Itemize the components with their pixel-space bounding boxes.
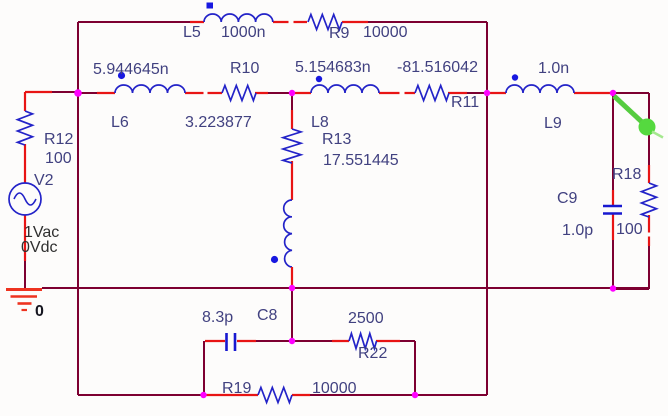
svg-text:L6: L6 (111, 114, 129, 131)
svg-text:L9: L9 (544, 115, 562, 132)
resistor R13 (283, 129, 301, 163)
inductor L9 (506, 85, 574, 93)
wire row2 left (dark) (52, 92, 291, 93)
svg-text:R18: R18 (612, 166, 641, 183)
svg-text:5.944645n: 5.944645n (93, 61, 169, 78)
svg-text:1.0n: 1.0n (538, 60, 569, 77)
ground 0 symbol (6, 290, 42, 311)
svg-text:C8: C8 (257, 307, 278, 324)
svg-text:R10: R10 (230, 60, 259, 77)
L5 marker (blue square) (207, 3, 214, 9)
svg-text:V2: V2 (34, 172, 54, 189)
svg-text:10000: 10000 (312, 380, 357, 397)
node junction (203,395) (200, 392, 206, 398)
wire R18 stubs (648, 165, 650, 246)
svg-text:C9: C9 (557, 190, 578, 207)
wire outer left rail (77, 22, 79, 395)
node junction (487,93) (484, 90, 490, 96)
wire row2 left (red) (25, 91, 52, 93)
resistor R10 (222, 86, 256, 101)
wire R22 stubs (332, 340, 400, 342)
L7 marker dot (271, 256, 278, 263)
wire middle branch top (291, 93, 293, 110)
voltage source V2 (9, 183, 41, 215)
wire R19 stubs (205, 394, 310, 396)
svg-text:10000: 10000 (363, 24, 408, 41)
node junction (292,341) (289, 338, 295, 344)
wire C9 branch dark (612, 93, 614, 288)
svg-text:R11: R11 (451, 94, 479, 111)
wire C8 row right corner (400, 341, 415, 395)
svg-text:100: 100 (616, 221, 643, 238)
wire L9 stubs (489, 92, 611, 94)
wire V2 to ground (dark) (24, 261, 26, 288)
wire L6 pin stubs (97, 92, 268, 94)
svg-text:L5: L5 (183, 24, 201, 41)
svg-text:17.551445: 17.551445 (323, 152, 399, 169)
wire pin gaps (white breaks) (204, 22, 650, 237)
capacitor C8 (227, 333, 236, 351)
svg-text:100: 100 (45, 150, 72, 167)
wire left column red (24, 92, 26, 261)
wire C9 stubs (612, 190, 614, 240)
svg-text:-81.516042: -81.516042 (397, 59, 478, 76)
wire outer right rail (486, 22, 488, 395)
svg-text:R13: R13 (322, 131, 351, 148)
ground row wire (42, 287, 649, 289)
L6 marker dot (118, 72, 125, 79)
svg-text:R12: R12 (44, 131, 73, 148)
svg-text:5.154683n: 5.154683n (295, 59, 371, 76)
node junction (292,288) (289, 285, 295, 291)
svg-text:8.3p: 8.3p (202, 309, 233, 326)
node junction (78,93) (74, 89, 82, 97)
inductor L5 (204, 14, 273, 22)
wire R18 bottom dark (613, 246, 649, 289)
resistor R18 (642, 183, 657, 217)
resistor R11 (415, 86, 449, 101)
svg-text:R9: R9 (329, 25, 350, 42)
wire R13 stubs (291, 110, 293, 200)
wire outer top rail (78, 21, 487, 23)
resistor R12 (18, 111, 33, 145)
node junction (415,395) (412, 392, 418, 398)
svg-text:R22: R22 (358, 345, 387, 362)
svg-text:1000n: 1000n (221, 24, 266, 41)
node junction (613,93) (610, 90, 616, 96)
L9 marker dot (512, 74, 518, 80)
wire L7 bottom stub (291, 267, 293, 286)
svg-text:0: 0 (35, 303, 44, 320)
capacitor C9 (603, 206, 622, 214)
inductor L6 (115, 85, 185, 93)
wire L5 pin stubs (red) (190, 21, 368, 23)
svg-text:0Vdc: 0Vdc (21, 239, 57, 256)
resistor R19 (258, 388, 292, 403)
wire outer bottom rail (78, 394, 487, 396)
probe marker (green) (614, 96, 663, 138)
inductor L7 (284, 200, 292, 267)
wire row2 mid dark (467, 92, 485, 94)
svg-text:L8: L8 (311, 114, 329, 131)
wire C8 stubs (205, 340, 256, 342)
wire right top corner (613, 93, 649, 165)
svg-text:2500: 2500 (348, 310, 384, 327)
wire C8 row left corner (204, 341, 332, 395)
svg-text:3.223877: 3.223877 (185, 114, 252, 131)
inductor L8 (311, 85, 379, 93)
wire row2 mid stubs (294, 92, 467, 94)
svg-text:R19: R19 (222, 380, 251, 397)
resistor R22 (349, 334, 377, 349)
resistor R9 (308, 15, 342, 30)
wire middle branch to C8 row (291, 288, 293, 341)
node junction (292,93) (289, 90, 295, 96)
L8 marker dot (316, 76, 322, 82)
svg-text:1.0p: 1.0p (562, 222, 593, 239)
node junction (613,288) (610, 285, 616, 291)
